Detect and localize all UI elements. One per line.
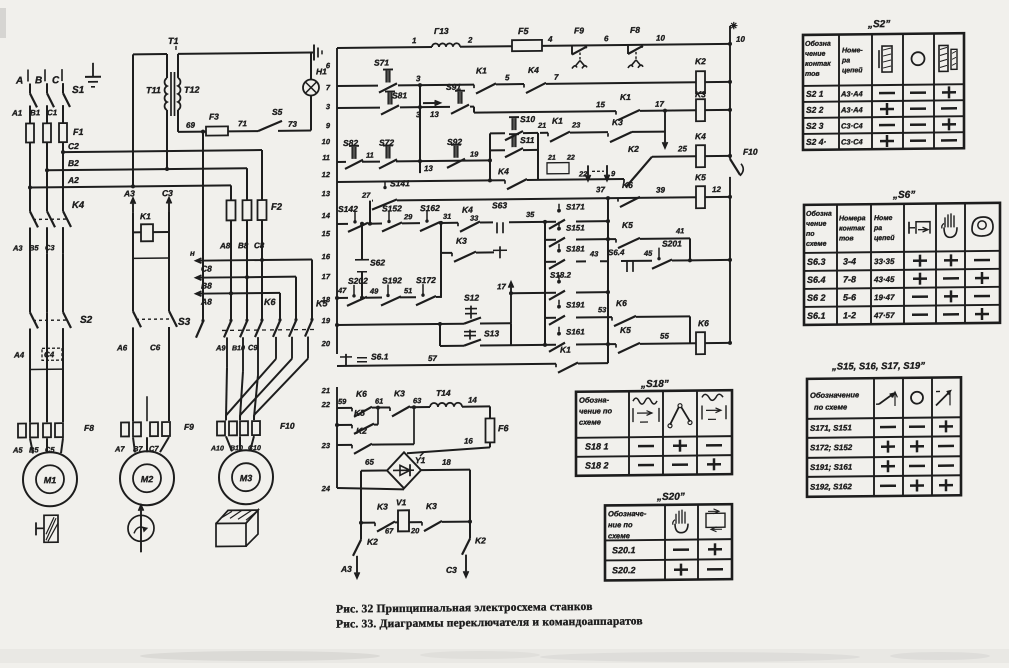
wire rung 12 xyxy=(337,364,556,366)
table S20 hand icon xyxy=(675,524,688,533)
svg-text:цепей: цепей xyxy=(842,66,863,74)
svg-text:C3: C3 xyxy=(45,243,55,252)
svg-text:A8: A8 xyxy=(200,297,212,307)
contact K5 rung xyxy=(608,238,616,240)
svg-text:61: 61 xyxy=(375,397,383,406)
svg-text:B1: B1 xyxy=(30,108,41,117)
svg-text:S142: S142 xyxy=(338,204,358,214)
contact K2 rung23 xyxy=(351,445,353,449)
svg-text:3-4: 3-4 xyxy=(843,256,856,266)
table S20 rotate icon xyxy=(706,513,725,527)
limit switch S192 xyxy=(386,294,389,297)
svg-text:S91: S91 xyxy=(446,82,461,92)
transformer T11 winding xyxy=(166,54,168,78)
tool icon grinding wheel xyxy=(44,515,58,542)
svg-text:K1: K1 xyxy=(476,65,487,75)
svg-text:Г13: Г13 xyxy=(434,26,449,36)
pushbutton S10 branch xyxy=(490,132,505,134)
contact K1 rung2 xyxy=(473,85,475,89)
svg-text:S6.3: S6.3 xyxy=(807,257,826,267)
svg-text:S2 1: S2 1 xyxy=(806,89,824,99)
svg-text:S152: S152 xyxy=(382,203,402,213)
wire junction 3-13 xyxy=(419,85,421,173)
svg-text:чение по: чение по xyxy=(579,406,612,415)
fuse F5 xyxy=(512,40,542,51)
pushbutton S11 branch xyxy=(490,149,505,151)
svg-text:S13: S13 xyxy=(484,328,499,338)
svg-text:✳: ✳ xyxy=(730,21,738,31)
wire heaters to motor M1 xyxy=(30,438,33,453)
svg-text:A4: A4 xyxy=(13,351,25,360)
thermal contact F8 xyxy=(627,45,629,54)
wire K4 to A3 B5 C3 xyxy=(29,227,31,253)
svg-text:37: 37 xyxy=(596,185,605,194)
wire rung 4 left xyxy=(337,161,346,163)
svg-text:S82: S82 xyxy=(343,138,358,148)
svg-text:C3·C4: C3·C4 xyxy=(841,121,864,130)
contact S18.2 xyxy=(558,275,560,280)
svg-text:3: 3 xyxy=(416,74,421,83)
svg-text:K5: K5 xyxy=(354,408,365,418)
svg-text:S151: S151 xyxy=(566,223,585,232)
contact K6 rung5 xyxy=(617,198,619,202)
svg-text:41: 41 xyxy=(675,226,684,235)
svg-text:K4: K4 xyxy=(528,65,539,75)
table S15 circle icon xyxy=(911,392,923,404)
svg-text:B: B xyxy=(35,75,42,86)
svg-text:F1: F1 xyxy=(73,127,84,137)
wire rung 3 left xyxy=(337,107,380,109)
relay coil K3 xyxy=(696,99,705,121)
svg-text:K2: K2 xyxy=(695,56,706,66)
contact S161 xyxy=(558,327,560,332)
contactor K1 branch arrows xyxy=(132,198,134,212)
svg-text:49: 49 xyxy=(369,287,379,296)
svg-text:T14: T14 xyxy=(436,388,451,398)
svg-text:по: по xyxy=(806,231,815,238)
pushbutton S92 xyxy=(451,144,461,146)
limit switch S172 xyxy=(421,293,424,296)
svg-text:11: 11 xyxy=(366,151,374,160)
thermal contact F9 xyxy=(571,46,573,55)
svg-text:C3: C3 xyxy=(162,188,173,198)
contact K2 rung13 xyxy=(623,179,625,183)
limit switch S141 xyxy=(383,186,386,189)
svg-text:Y1: Y1 xyxy=(415,455,426,465)
contacts K6 K5 blades xyxy=(196,322,203,338)
table S15 lever-left icon xyxy=(879,394,893,404)
wire contact outputs xyxy=(226,337,228,367)
contactor K4 main contacts xyxy=(30,211,38,227)
svg-text:A: A xyxy=(15,76,23,87)
wire phases to F1 xyxy=(29,105,31,123)
wire F6 to bridge top xyxy=(489,442,491,447)
svg-text:Номе-: Номе- xyxy=(842,47,863,54)
table S15 lever-right icon xyxy=(936,391,950,405)
svg-text:67: 67 xyxy=(385,526,394,535)
svg-text:A3: A3 xyxy=(12,244,23,253)
ground symbol top-left xyxy=(92,63,94,77)
pushbutton S81 xyxy=(385,90,395,92)
svg-text:K3: K3 xyxy=(612,117,623,127)
wire parallel block verticals xyxy=(489,133,491,180)
svg-text:K5: K5 xyxy=(620,325,631,335)
svg-text:11: 11 xyxy=(322,153,330,162)
svg-text:17: 17 xyxy=(655,100,664,109)
wire neutral drop xyxy=(201,130,205,134)
wire T12 to secondary chain xyxy=(177,54,179,78)
wire 31 vertical xyxy=(440,223,442,298)
svg-text:S201: S201 xyxy=(662,238,682,248)
limit switch S142 xyxy=(353,220,356,223)
transformer T12 winding xyxy=(178,78,180,110)
svg-text:S162: S162 xyxy=(420,203,440,213)
svg-text:„S15, S16, S17, S19”: „S15, S16, S17, S19” xyxy=(831,361,925,373)
svg-text:K6: K6 xyxy=(264,297,276,307)
svg-text:контак: контак xyxy=(839,225,865,232)
svg-text:33: 33 xyxy=(470,214,479,223)
wire rung S151 xyxy=(545,239,556,241)
svg-text:F10: F10 xyxy=(280,421,295,431)
svg-text:F9: F9 xyxy=(184,422,194,432)
svg-text:35: 35 xyxy=(526,210,535,219)
svg-text:C1: C1 xyxy=(47,108,58,117)
svg-text:T12: T12 xyxy=(184,85,200,95)
pushbutton S82 xyxy=(349,145,359,147)
fuse F6 xyxy=(486,418,495,442)
wire heaters to motor M3 xyxy=(226,436,232,451)
svg-text:схеме: схеме xyxy=(579,418,601,427)
svg-text:17: 17 xyxy=(322,272,331,281)
table S15 values xyxy=(880,426,896,429)
table S15 grid xyxy=(807,377,961,497)
node arrow mark rung3 xyxy=(423,102,440,104)
wire chain 21 K1 23 K3 xyxy=(540,132,548,134)
svg-text:43: 43 xyxy=(589,249,599,258)
wire right drop to C3 xyxy=(469,522,471,539)
pushbutton S91 xyxy=(420,106,450,108)
svg-text:22: 22 xyxy=(578,169,588,178)
svg-text:Обозна: Обозна xyxy=(805,40,831,48)
svg-text:F2: F2 xyxy=(271,202,283,213)
pump icon xyxy=(128,515,154,541)
wire node 37 vertical xyxy=(607,198,609,363)
wire T11 bottom to B2 xyxy=(166,110,168,169)
svg-text:S172: S172 xyxy=(416,275,436,285)
svg-text:1-2: 1-2 xyxy=(843,310,856,320)
svg-text:цепей: цепей xyxy=(874,234,895,242)
svg-text:6: 6 xyxy=(604,34,609,43)
svg-text:схеме: схеме xyxy=(806,241,827,248)
contact K6 rung8 xyxy=(611,317,613,321)
table S18 wave icon 2 xyxy=(702,394,723,400)
switch S2 xyxy=(30,312,38,328)
relay coil K4 xyxy=(696,145,705,167)
svg-text:S18 2: S18 2 xyxy=(585,460,609,470)
svg-text:схеме: схеме xyxy=(608,531,630,540)
svg-text:B5: B5 xyxy=(29,445,39,454)
wire lamp to ground xyxy=(310,53,312,80)
svg-text:71: 71 xyxy=(238,119,247,128)
svg-text:K1: K1 xyxy=(552,116,563,126)
svg-text:S5: S5 xyxy=(272,107,283,117)
svg-text:по схеме: по схеме xyxy=(814,402,847,411)
contact K3 rung21 xyxy=(389,407,391,411)
svg-text:43·45: 43·45 xyxy=(873,275,895,284)
svg-text:B2: B2 xyxy=(68,158,79,168)
inductor T14 xyxy=(430,403,462,407)
svg-text:S10: S10 xyxy=(520,114,535,124)
wire bridge left xyxy=(361,469,387,471)
svg-text:A3·A4: A3·A4 xyxy=(840,89,864,98)
svg-text:F8: F8 xyxy=(630,25,640,35)
switch S1 xyxy=(30,93,37,107)
svg-text:Обозна-: Обозна- xyxy=(579,395,610,404)
contact S201 xyxy=(657,257,660,260)
svg-text:10: 10 xyxy=(656,34,665,43)
fuse F10 on rail xyxy=(730,159,740,175)
svg-text:A6: A6 xyxy=(116,343,128,352)
contact K3 right V1 xyxy=(421,522,423,526)
svg-text:K3: K3 xyxy=(426,501,437,511)
table S6 grid xyxy=(804,203,1000,325)
contact K4 rung6 xyxy=(457,223,459,227)
table S2 values xyxy=(879,92,895,95)
svg-text:C8: C8 xyxy=(254,241,265,250)
fuse F2 xyxy=(227,200,236,220)
svg-text:S191; S161: S191; S161 xyxy=(810,463,853,472)
svg-text:10: 10 xyxy=(322,137,331,146)
svg-text:K2: K2 xyxy=(628,144,639,154)
svg-text:33·35: 33·35 xyxy=(874,257,895,266)
svg-text:C6: C6 xyxy=(150,343,161,352)
svg-text:T11: T11 xyxy=(146,85,161,95)
table S6 blob icon xyxy=(972,217,993,236)
svg-text:„S2”: „S2” xyxy=(867,19,890,30)
svg-text:C8: C8 xyxy=(201,264,212,274)
contact K1 rung12 xyxy=(555,364,557,368)
wire 27 vertical xyxy=(369,201,371,224)
svg-text:C2: C2 xyxy=(68,141,79,151)
svg-text:7-8: 7-8 xyxy=(843,274,856,284)
svg-text:73: 73 xyxy=(288,120,297,129)
svg-text:S1: S1 xyxy=(72,85,85,96)
svg-text:ра: ра xyxy=(873,225,882,232)
svg-text:S18.2: S18.2 xyxy=(550,271,571,280)
svg-text:15: 15 xyxy=(322,229,331,238)
svg-text:тов: тов xyxy=(839,235,854,242)
wire left rail lower xyxy=(336,387,338,488)
wire to rail rung 25x xyxy=(690,259,730,261)
svg-text:57: 57 xyxy=(428,354,437,363)
svg-text:S192: S192 xyxy=(382,275,402,285)
contact K6 rung21 xyxy=(351,408,353,412)
svg-text:59: 59 xyxy=(338,397,347,406)
contact K1 rung3b xyxy=(547,133,549,137)
wire F2 outputs xyxy=(230,220,232,321)
svg-text:S181: S181 xyxy=(566,244,585,253)
svg-text:19·47: 19·47 xyxy=(874,293,895,302)
svg-text:5-6: 5-6 xyxy=(843,292,857,302)
relay coil V1 xyxy=(398,510,409,531)
table S2 circle icon xyxy=(912,52,925,65)
wire left drop to A3 xyxy=(360,523,362,540)
svg-text:„S6”: „S6” xyxy=(892,190,915,201)
svg-text:K1: K1 xyxy=(140,211,151,221)
wire rung S181 xyxy=(545,261,556,263)
svg-text:2: 2 xyxy=(467,36,473,45)
switch S62 vertical xyxy=(361,224,363,260)
motor M1 xyxy=(23,452,77,507)
svg-text:B10: B10 xyxy=(232,345,245,352)
wire to S2 xyxy=(29,253,31,312)
inductor L13 xyxy=(432,43,460,47)
svg-text:C4: C4 xyxy=(44,350,55,359)
contact S181 xyxy=(558,244,560,249)
svg-text:23: 23 xyxy=(571,120,581,129)
wire 71 xyxy=(228,130,258,132)
table S18 values xyxy=(638,445,654,448)
svg-text:S2 3: S2 3 xyxy=(806,121,824,131)
contact S151 xyxy=(558,222,560,227)
relay K1 coil xyxy=(141,224,153,241)
svg-text:F10: F10 xyxy=(743,147,758,157)
wire arrow 17 up xyxy=(510,282,512,323)
svg-text:K3: K3 xyxy=(695,89,706,99)
wire rung 21 xyxy=(337,407,352,409)
wire rung S191 xyxy=(545,317,556,319)
wire A8 tap xyxy=(196,292,231,294)
svg-text:45: 45 xyxy=(643,249,653,258)
relay coil K2 xyxy=(696,71,705,93)
svg-text:S2 2: S2 2 xyxy=(806,105,824,115)
svg-text:18: 18 xyxy=(442,458,451,467)
wire rung 9 xyxy=(439,324,441,346)
node arrow 22 down xyxy=(587,165,589,180)
contact K3 left V1 xyxy=(374,523,376,527)
svg-text:23: 23 xyxy=(321,441,331,450)
svg-text:чение: чение xyxy=(805,51,825,58)
wire rung 7 xyxy=(337,297,348,299)
svg-text:S63: S63 xyxy=(492,200,507,210)
svg-text:14: 14 xyxy=(468,396,477,405)
svg-text:S6.4: S6.4 xyxy=(608,248,625,257)
svg-text:S72: S72 xyxy=(379,137,394,147)
wire x414 vertical xyxy=(413,407,415,444)
wire node 17 drop xyxy=(664,111,666,148)
svg-text:K1: K1 xyxy=(560,345,571,355)
svg-text:12: 12 xyxy=(322,170,331,179)
svg-text:„S20”: „S20” xyxy=(656,492,685,503)
svg-text:63: 63 xyxy=(413,396,422,405)
wire C8 tap xyxy=(196,259,262,262)
svg-text:S171, S151: S171, S151 xyxy=(810,423,852,432)
svg-text:20: 20 xyxy=(321,339,331,348)
svg-text:S6 2: S6 2 xyxy=(807,293,826,303)
wire right rail xyxy=(729,26,731,159)
wire rung 1 supply xyxy=(337,46,432,49)
pushbutton S72 xyxy=(383,144,393,146)
contact K4 branch xyxy=(490,179,505,181)
svg-text:Обозначение: Обозначение xyxy=(810,390,859,400)
svg-text:53: 53 xyxy=(598,305,607,314)
svg-text:A9: A9 xyxy=(215,343,226,352)
svg-text:K5: K5 xyxy=(695,172,706,182)
svg-text:тов: тов xyxy=(805,71,820,78)
node dashed link K6 K5 xyxy=(222,328,316,331)
contact S191 xyxy=(558,300,560,305)
wire S3 to F9 xyxy=(132,327,134,421)
svg-text:47·57: 47·57 xyxy=(873,311,895,320)
contact S171 xyxy=(558,204,560,209)
svg-text:Обозна: Обозна xyxy=(806,210,832,218)
svg-text:19: 19 xyxy=(322,316,331,325)
svg-text:K6: K6 xyxy=(698,318,709,328)
transformer core xyxy=(170,72,172,116)
wire phases to K4 xyxy=(29,187,31,211)
svg-text:K5: K5 xyxy=(622,220,633,230)
svg-text:S171: S171 xyxy=(566,202,585,211)
svg-text:чение: чение xyxy=(806,221,826,228)
motor M2 xyxy=(120,451,174,506)
table S6 hand icon xyxy=(944,227,957,237)
wire primary top xyxy=(133,53,167,55)
svg-text:21: 21 xyxy=(547,155,556,162)
svg-text:39: 39 xyxy=(656,186,665,195)
svg-text:B8: B8 xyxy=(201,281,212,291)
switch S6.4 xyxy=(626,261,628,272)
svg-text:A8: A8 xyxy=(219,241,231,250)
svg-text:M1: M1 xyxy=(44,475,57,485)
svg-text:S172; S152: S172; S152 xyxy=(810,443,853,452)
wire sub vertical x545 xyxy=(544,222,546,345)
motor M3 xyxy=(219,450,273,505)
wire K6 outputs merge xyxy=(226,367,227,417)
svg-text:S2 4·: S2 4· xyxy=(806,137,826,147)
svg-text:27: 27 xyxy=(361,191,371,200)
table S18 grid xyxy=(576,390,732,476)
wire heaters to motor M2 xyxy=(133,437,135,452)
pushbutton S71 xyxy=(383,68,393,70)
svg-text:10: 10 xyxy=(736,35,745,44)
table S2 cam icon 2 xyxy=(939,45,948,71)
svg-text:S92: S92 xyxy=(447,137,462,147)
wire K5 outputs merge xyxy=(226,359,276,416)
svg-text:22: 22 xyxy=(566,155,575,162)
wire left rail xyxy=(336,48,338,354)
node dashed box 21 22 xyxy=(547,163,569,174)
svg-text:A2: A2 xyxy=(67,175,79,185)
contact K1 rung3 xyxy=(615,111,617,115)
rectifier bridge Y1 xyxy=(387,452,421,488)
overload F8 heaters xyxy=(18,424,26,438)
overload F10 heaters xyxy=(217,421,225,435)
svg-text:S12: S12 xyxy=(464,293,479,303)
svg-text:S62: S62 xyxy=(370,258,385,268)
svg-text:C: C xyxy=(52,75,60,86)
wire V1 rung xyxy=(359,521,363,525)
svg-text:31: 31 xyxy=(443,212,451,221)
svg-text:A3: A3 xyxy=(123,188,135,198)
wire phase B drop xyxy=(46,83,48,93)
svg-text:M2: M2 xyxy=(141,474,154,484)
svg-text:S141: S141 xyxy=(390,178,410,188)
contact K3 rung15 xyxy=(441,252,452,254)
table S2 grid xyxy=(803,33,964,150)
svg-text:F9: F9 xyxy=(574,25,584,35)
svg-text:K2: K2 xyxy=(356,426,367,436)
svg-text:S202: S202 xyxy=(348,276,368,286)
